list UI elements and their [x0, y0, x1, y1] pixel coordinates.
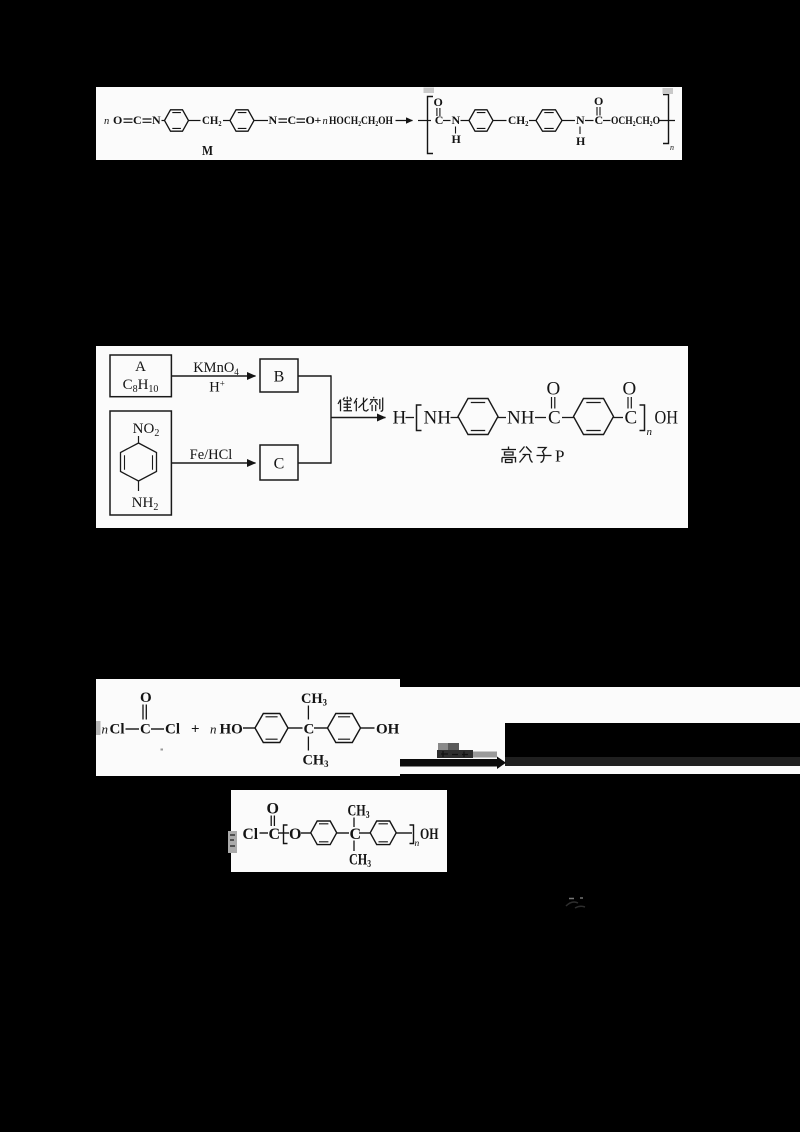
bond through right bracket	[658, 120, 675, 122]
box C	[260, 445, 298, 480]
svg-text:B: B	[274, 369, 285, 386]
svg-text:Fe/HCl: Fe/HCl	[190, 447, 233, 463]
svg-text:O: O	[547, 379, 561, 400]
left repeat bracket	[428, 97, 434, 154]
svg-text:n: n	[647, 426, 653, 438]
bond CH2-ring2	[223, 120, 230, 122]
C=O double bond	[437, 108, 440, 116]
svg-text:n: n	[415, 839, 420, 849]
svg-text:C: C	[350, 826, 362, 843]
bond ring2-OH	[361, 727, 375, 729]
svg-text:n: n	[323, 116, 328, 127]
bond C-CH3 up	[353, 818, 355, 828]
svg-text:O: O	[623, 379, 637, 400]
bond C-ring2	[359, 832, 370, 834]
white strip lower right of panel 3	[505, 766, 800, 774]
svg-text:N: N	[452, 113, 461, 127]
bond HO-ring	[243, 727, 255, 729]
svg-text:A: A	[135, 359, 146, 375]
svg-text:O: O	[289, 826, 301, 843]
arrow nitroaniline to C	[171, 462, 255, 464]
benzene ring 1	[165, 110, 189, 131]
bond ring4-N	[562, 120, 575, 122]
bond ring1-C	[337, 832, 349, 834]
svg-text:O: O	[267, 801, 279, 818]
svg-text:N: N	[576, 113, 585, 127]
PANEL 2 white background	[96, 346, 688, 528]
gray smudge blocks above arrow	[438, 743, 448, 751]
faint pen mark lower right	[566, 902, 585, 908]
bond C-N	[443, 120, 451, 122]
svg-text:N: N	[269, 113, 278, 127]
label 高分子 (polymer)	[502, 447, 552, 463]
bond ring3-CH2	[493, 120, 507, 122]
svg-text:NH: NH	[424, 408, 452, 429]
bond C-CH3 up	[307, 706, 309, 720]
bond CH2-ring4	[529, 120, 536, 122]
double bond N=C	[279, 119, 288, 122]
right repeat bracket	[410, 825, 414, 844]
svg-text:OH: OH	[420, 826, 439, 843]
bond ring-NH2	[138, 481, 140, 491]
benzene ring 3	[469, 110, 493, 131]
wire C to junction	[298, 462, 331, 464]
bond C-CH3 down	[353, 841, 355, 852]
right repeat bracket	[663, 95, 669, 144]
bond into bracket	[418, 120, 431, 122]
svg-text:Cl: Cl	[243, 826, 259, 843]
svg-text:O: O	[306, 113, 315, 127]
svg-text:OH: OH	[655, 408, 679, 429]
bond through left bracket	[278, 832, 289, 834]
C=O double bond	[628, 397, 631, 409]
bond N-H	[579, 127, 581, 135]
benzene ring 2	[370, 821, 396, 845]
svg-text:O: O	[113, 113, 122, 127]
gray speck	[161, 749, 164, 751]
arrow to polymer	[331, 417, 386, 419]
svg-text:KMnO4: KMnO4	[193, 360, 239, 377]
benzene ring 1	[311, 821, 337, 845]
right repeat bracket	[640, 405, 645, 431]
double bond O=C	[124, 119, 133, 122]
svg-text:N: N	[152, 113, 161, 127]
svg-text:Cl: Cl	[110, 722, 125, 738]
bond ring1-C	[288, 727, 303, 729]
bond O-ring1	[301, 832, 311, 834]
bond C-Cl	[151, 728, 164, 730]
dark gray bar right	[505, 757, 800, 766]
bond ring2-bracket	[396, 832, 412, 834]
gray scan blob on right bracket	[663, 88, 674, 94]
svg-text:H: H	[576, 134, 586, 148]
svg-text:n: n	[104, 116, 109, 127]
bond C-ring2	[314, 727, 328, 729]
benzene ring 1	[458, 399, 498, 435]
PANEL 3 white background (left main)	[96, 679, 400, 776]
PANEL 1 white background	[96, 87, 682, 160]
svg-text:HO: HO	[220, 722, 243, 738]
benzene ring 2	[328, 714, 361, 743]
condition 催化剂 (catalyst)	[338, 397, 383, 412]
white band right of panel 3	[505, 687, 800, 723]
bond C-O chain	[603, 120, 611, 122]
bond NH-ring	[451, 417, 459, 419]
svg-text:Cl: Cl	[165, 722, 180, 738]
arrow A to B	[171, 375, 255, 377]
svg-text:C: C	[269, 826, 281, 843]
bond H-bracket	[406, 417, 415, 419]
svg-text:C: C	[304, 722, 315, 738]
svg-text:C: C	[274, 456, 285, 473]
svg-text:n: n	[670, 143, 674, 152]
bond N-ring	[162, 120, 165, 122]
C=O double bond	[597, 107, 600, 116]
PANEL 4 white background	[231, 790, 447, 872]
bond ring2-C	[614, 417, 624, 419]
svg-text:OH: OH	[376, 722, 400, 738]
svg-text:M: M	[202, 144, 213, 159]
gray scan blob on left bracket	[424, 88, 435, 94]
benzene ring 4	[536, 110, 562, 131]
bond N-C	[585, 120, 594, 122]
C=O double bond	[552, 397, 555, 409]
bond Cl-C	[126, 728, 140, 730]
svg-text:NH: NH	[507, 408, 535, 429]
box A	[110, 355, 171, 397]
double bond C=O	[297, 119, 306, 122]
bond C-CH3 down	[307, 737, 309, 751]
svg-text:C: C	[435, 113, 444, 127]
bond N-ring3	[461, 120, 470, 122]
bond NO2-ring	[138, 436, 140, 443]
svg-text:O: O	[434, 95, 443, 109]
benzene ring 1	[255, 714, 288, 743]
svg-text:OCH2CH2O: OCH2CH2O	[611, 113, 660, 128]
C=O double bond	[143, 705, 146, 720]
reaction arrow	[396, 120, 413, 122]
benzene ring 2	[574, 399, 614, 435]
heavy black arrow bar	[400, 759, 499, 767]
svg-text:C: C	[595, 113, 604, 127]
bond C-ring2	[562, 417, 574, 419]
svg-text:H: H	[393, 408, 407, 429]
bond Cl-C	[260, 832, 269, 834]
C=O double bond	[271, 816, 274, 827]
svg-text:n: n	[102, 722, 109, 737]
svg-text:HOCH2CH2OH: HOCH2CH2OH	[329, 113, 394, 128]
svg-text:O: O	[140, 690, 152, 706]
svg-text:P: P	[555, 447, 564, 466]
bond ring2-N	[254, 120, 268, 122]
benzene ring 2	[230, 110, 254, 131]
benzene ring (vertical)	[121, 443, 157, 481]
svg-text:C: C	[133, 113, 142, 127]
double bond C=N	[143, 119, 152, 122]
bond NH-C	[535, 417, 546, 419]
bond N-H	[455, 127, 457, 134]
junction vertical wire	[330, 375, 332, 463]
nitroaniline box	[110, 411, 171, 515]
svg-text:C: C	[625, 408, 638, 429]
faint catalyst scribble	[437, 750, 473, 758]
left repeat bracket	[417, 405, 422, 431]
PANEL 3 white middle-upper extension	[400, 687, 505, 774]
svg-text:C: C	[548, 408, 561, 429]
box B	[260, 359, 298, 392]
svg-text:C: C	[140, 722, 151, 738]
wire B to junction	[298, 375, 331, 377]
bond ring1-CH2	[189, 120, 201, 122]
svg-text:O: O	[594, 94, 603, 108]
svg-text:H: H	[452, 132, 462, 146]
svg-text:n: n	[210, 722, 217, 737]
gray tab at left edge	[96, 721, 101, 735]
svg-text:+: +	[315, 113, 322, 127]
left repeat bracket	[284, 825, 288, 844]
svg-text:C: C	[288, 113, 297, 127]
gray scan mark at left edge	[228, 831, 237, 853]
bond ring-NH	[498, 417, 506, 419]
svg-text:+: +	[191, 722, 200, 738]
